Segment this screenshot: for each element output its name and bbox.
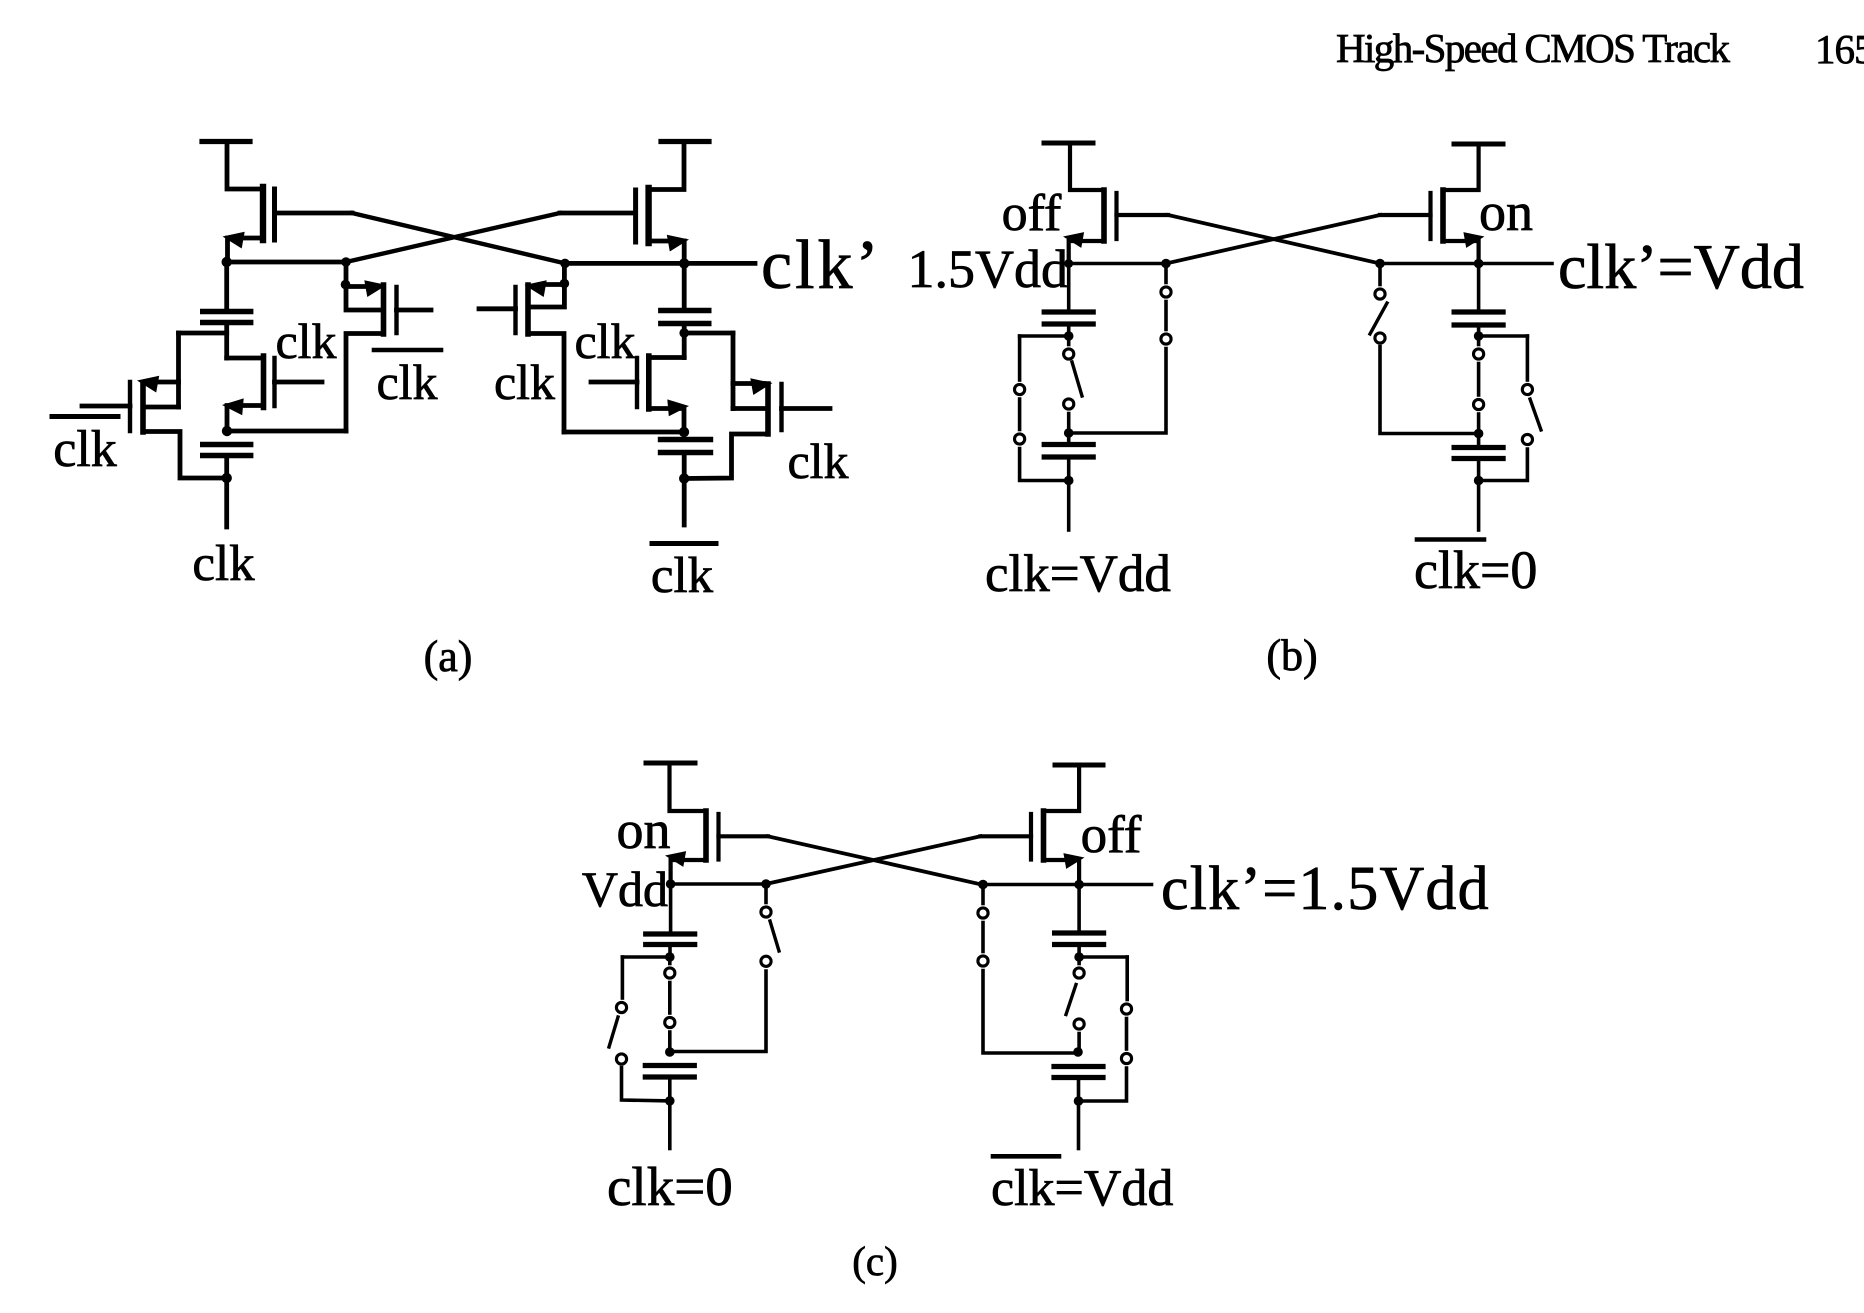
svg-text:on: on: [1479, 182, 1533, 242]
node D diag junction dot: [1375, 259, 1385, 269]
node C junction dot: [1161, 259, 1171, 269]
nmos M4 gate lead: [591, 380, 637, 385]
cross wire M2 gate to node A: [346, 213, 560, 262]
pmos P4 gate bar: [779, 384, 783, 430]
switch S4 wire upper: [1477, 336, 1481, 345]
svg-text:1.5Vdd: 1.5Vdd: [908, 239, 1069, 299]
pmos M7 source wire: [670, 763, 705, 811]
node D junction dot: [1474, 259, 1484, 269]
capacitor C3 bottom stem: [682, 324, 687, 358]
pmos P4 body tap wire: [733, 406, 768, 411]
pmos M2 drain wire: [649, 241, 685, 263]
node E junction dot: [666, 879, 676, 889]
switch S5 open blade: [1370, 303, 1387, 334]
svg-text:clk: clk: [192, 536, 255, 592]
open switch branch wire top (b-right): [1378, 264, 1382, 285]
switch S11 closed blade: [981, 923, 985, 952]
pmos M1 gate bar: [272, 189, 277, 240]
switch S10 wire lower: [1077, 1034, 1081, 1053]
pmos P3 gate lead: [479, 306, 516, 311]
pmos M8 source wire: [1046, 765, 1080, 811]
svg-text:(a): (a): [424, 632, 473, 681]
left rail upper segment: [176, 333, 181, 382]
switch S1 wire upper: [1067, 336, 1071, 345]
node F junction dot: [1074, 880, 1084, 890]
switch S10 open blade: [1066, 985, 1076, 1015]
Vdd rail bar right (a): [661, 139, 709, 144]
pmos P2 source wire: [346, 334, 384, 432]
node C wire: [1069, 262, 1166, 266]
node B diag junction dot: [560, 259, 570, 269]
pmos M5 drain wire: [1069, 241, 1104, 264]
pmos P1 gate bar: [128, 382, 132, 431]
bypass tee wire left (b): [1020, 334, 1069, 338]
switch S5 bottom circle: [1375, 333, 1385, 343]
svg-text:clk=Vdd: clk=Vdd: [991, 1160, 1173, 1217]
svg-text:clk’=1.5Vdd: clk’=1.5Vdd: [1161, 855, 1490, 923]
open switch branch wire bottom (c-left): [670, 971, 766, 1052]
pmos P4 drain arrow: [750, 378, 772, 395]
pmos M8 gate lead: [981, 834, 1032, 838]
node A diag junction dot: [341, 257, 351, 267]
capacitor C3 top stem: [682, 263, 687, 310]
pmos P2 channel bar: [381, 285, 387, 334]
tee wire to right rail: [684, 331, 733, 336]
nmos M3 channel bar: [261, 356, 267, 408]
switch S4 top circle: [1474, 349, 1484, 359]
capacitor C10 bottom stem: [668, 1077, 672, 1101]
capacitor C2 bottom stem: [224, 456, 229, 479]
capacitor C9 bottom stem: [668, 945, 672, 958]
junction dot below C10: [665, 1096, 675, 1106]
capacitor C7 plates: [1454, 309, 1503, 314]
capacitor C3 plates: [661, 308, 709, 313]
nmos M4 channel bar: [646, 356, 652, 409]
switch S7 top circle: [665, 968, 675, 978]
nmos M4 source arrow: [667, 399, 689, 416]
capacitor C5 bottom stem: [1067, 324, 1071, 336]
Vdd rail bar right (b): [1454, 142, 1503, 147]
switch S11 top circle: [978, 908, 988, 918]
junction dot below C5: [1064, 331, 1074, 341]
pmos M5 source wire: [1070, 143, 1102, 190]
open switch branch wire bottom (b-right): [1380, 347, 1479, 434]
nmos M3 source arrow: [222, 398, 244, 415]
switch S7 closed blade: [668, 983, 672, 1014]
switch S8 open blade: [770, 921, 779, 951]
clkbar input stub (b-right): [1477, 481, 1481, 531]
nmos M3 gate bar: [272, 358, 276, 406]
svg-text:(c): (c): [852, 1238, 898, 1284]
capacitor C12 bottom stem: [1077, 1078, 1081, 1102]
switch S11 bottom circle: [978, 956, 988, 966]
pmos M8 drain wire: [1044, 860, 1080, 885]
pmos P3 gate bar: [513, 287, 517, 333]
capacitor C10 plates: [645, 1063, 694, 1068]
svg-text:clk: clk: [376, 354, 437, 410]
bypass rail left lower (b): [1020, 449, 1069, 481]
label clkbar overline (P2 gate): [374, 348, 441, 353]
pmos M7 drain arrow: [665, 851, 686, 867]
bypass rail right lower (b): [1479, 449, 1528, 481]
node B junction dot: [679, 258, 689, 268]
cross wire M7 gate to right node: [768, 836, 982, 884]
pmos M2 gate bar: [633, 190, 638, 242]
pmos P3 channel bar: [525, 285, 531, 334]
junction dot below C12: [1074, 1096, 1084, 1106]
pmos P3 source wire: [528, 334, 564, 433]
left rail body segment: [176, 382, 181, 407]
pmos M7 channel bar: [703, 811, 709, 860]
switch S4 wire lower: [1477, 414, 1481, 434]
pmos M2 gate lead: [560, 211, 636, 216]
bypass rail right lower (c): [1079, 1068, 1127, 1101]
loop wire left: [227, 429, 346, 434]
node A to pmos P2 stub: [346, 262, 379, 310]
node D wire: [1380, 262, 1552, 266]
pmos M6 channel bar: [1440, 190, 1446, 241]
switch S7 bottom circle: [665, 1017, 675, 1027]
cross wire M8 gate to node E: [766, 836, 981, 884]
pmos P4 channel bar: [765, 384, 771, 434]
switch S2 top circle: [1161, 287, 1171, 297]
svg-text:clk’: clk’: [761, 227, 882, 304]
svg-text:clk: clk: [574, 313, 635, 369]
svg-text:clk: clk: [53, 421, 117, 478]
switch S9 top circle: [616, 1002, 626, 1012]
pmos M6 drain wire: [1443, 241, 1479, 264]
cross wire M5 gate to right node: [1168, 215, 1380, 264]
bypass rail right (c): [1125, 957, 1129, 1000]
junction dot mid left (b): [1064, 428, 1074, 438]
switch S1 wire lower: [1067, 414, 1071, 434]
capacitor C6 plates: [1044, 442, 1093, 447]
loop wire right: [564, 430, 684, 435]
junction dot below C9: [665, 952, 675, 962]
tee wire to left rail: [179, 331, 227, 336]
junction dot lower left: [222, 426, 232, 436]
junction dot mid right (b): [1474, 429, 1484, 439]
pmos P4 source wire: [684, 434, 768, 479]
switch S8 top circle: [761, 907, 771, 917]
open switch branch wire top (c-left): [764, 884, 768, 903]
capacitor C1 bottom stem: [224, 323, 229, 359]
capacitor C7 top stem: [1477, 264, 1481, 313]
pmos M1 drain arrow: [223, 232, 245, 249]
capacitor C9 top stem: [669, 884, 673, 934]
svg-text:off: off: [1081, 806, 1142, 864]
svg-text:High-Speed CMOS Track: High-Speed CMOS Track: [1336, 25, 1730, 71]
pmos M6 gate bar: [1428, 193, 1432, 239]
switch S1 top circle: [1064, 349, 1074, 359]
svg-text:clk’=Vdd: clk’=Vdd: [1558, 231, 1804, 302]
label clkbar overline input right: [652, 541, 716, 546]
Vdd rail bar left (b): [1044, 141, 1093, 146]
capacitor C11 plates: [1055, 930, 1104, 935]
pmos M8 drain arrow: [1063, 853, 1084, 869]
switch S8 bottom circle: [761, 956, 771, 966]
node C drain junction dot: [1064, 259, 1073, 268]
bypass rail left lower (c): [622, 1068, 670, 1101]
switch S3 bottom circle: [1015, 434, 1025, 444]
clk input stub (c-left): [668, 1101, 672, 1149]
junction dot mid left (c): [665, 1047, 675, 1057]
svg-text:(b): (b): [1266, 631, 1317, 680]
pmos P2 gate bar: [394, 287, 398, 333]
switch S3 top circle: [1015, 384, 1025, 394]
pmos M2 source wire: [650, 142, 684, 190]
switch S4 closed blade: [1477, 364, 1481, 396]
pmos P3 drain junction dot: [560, 279, 570, 289]
switch S12 closed blade: [1125, 1019, 1129, 1050]
switch S9 open blade: [609, 1017, 618, 1047]
nmos M3 gate lead: [275, 380, 323, 385]
pmos P2 drain wire: [346, 284, 372, 289]
junction dot below C8: [1474, 476, 1484, 486]
node E diag junction dot: [761, 879, 771, 889]
svg-text:clk: clk: [651, 548, 714, 604]
capacitor C8 plates: [1454, 445, 1503, 450]
pmos M5 channel bar: [1101, 190, 1107, 241]
pmos M7 drain wire: [671, 860, 706, 884]
capacitor C1 top stem: [224, 262, 229, 312]
capacitor C1 plates: [203, 309, 251, 314]
node A wire: [227, 260, 346, 265]
capacitor C12 plates: [1054, 1064, 1103, 1069]
pmos M5 gate lead: [1117, 213, 1169, 217]
switch S1 open blade: [1072, 362, 1082, 396]
junction dot lower right: [679, 427, 689, 437]
capacitor C9 plates: [646, 931, 695, 936]
junction dot below C6: [1064, 476, 1074, 486]
switch S7 wire upper: [668, 957, 672, 964]
closed switch branch wire bottom (c-right): [983, 971, 1078, 1054]
capacitor C2 plates: [203, 442, 251, 447]
nmos M4 gate bar: [635, 358, 639, 407]
switch S10 wire upper: [1077, 957, 1081, 964]
pmos M7 gate bar: [716, 814, 720, 860]
cross wire M1 gate to right node: [352, 213, 565, 263]
label clkbar overline (P1 gate): [52, 414, 118, 419]
pmos P3 drain arrow: [525, 280, 547, 297]
tee junction dot right: [679, 328, 689, 338]
Vdd rail bar left (c): [646, 761, 695, 766]
pmos M2 drain arrow: [667, 235, 689, 252]
bypass rail left (b): [1018, 336, 1022, 380]
pmos M1 channel bar: [260, 187, 266, 240]
pmos P2 gate lead: [397, 308, 432, 313]
svg-text:clk: clk: [494, 354, 555, 410]
bypass rail right (b): [1526, 336, 1530, 380]
pmos P1 source wire: [143, 432, 227, 479]
switch S10 top circle: [1074, 968, 1084, 978]
pmos M8 gate bar: [1029, 814, 1033, 860]
label clkbar overline (b): [1417, 537, 1484, 542]
switch S4 bottom circle: [1474, 399, 1484, 409]
capacitor C6 top stem: [1067, 433, 1071, 445]
junction dot mid right (c): [1073, 1047, 1083, 1057]
pmos P3 drain wire: [540, 282, 564, 287]
bypass tee wire right (b): [1479, 334, 1528, 338]
capacitor C5 plates: [1044, 309, 1093, 314]
switch S12 bottom circle: [1121, 1053, 1131, 1063]
switch S6 open blade: [1530, 399, 1541, 430]
pmos P1 body tap wire: [143, 405, 179, 410]
pmos P2 drain junction dot: [341, 280, 351, 290]
nmos M4 source wire: [649, 409, 684, 433]
pmos M8 channel bar: [1041, 811, 1047, 860]
clk input stub left: [224, 478, 229, 527]
node F diag junction dot: [978, 880, 988, 890]
switch S9 bottom circle: [616, 1054, 626, 1064]
pmos P1 drain arrow: [137, 376, 159, 393]
capacitor C6 bottom stem: [1067, 457, 1071, 481]
pmos M7 gate lead: [719, 834, 769, 838]
switch S7 wire lower: [668, 1032, 672, 1052]
right rail body segment: [731, 384, 736, 409]
svg-text:Vdd: Vdd: [582, 861, 668, 917]
junction dot below C2: [222, 473, 232, 483]
closed switch branch wire top (c-right): [981, 885, 985, 904]
nmos M3 source wire: [227, 406, 264, 432]
pmos P2 drain arrow: [364, 280, 386, 297]
pmos P4 gate lead: [782, 406, 831, 411]
pmos M1 drain wire: [228, 238, 264, 262]
capacitor C8 top stem: [1477, 434, 1481, 448]
capacitor C11 bottom stem: [1077, 945, 1081, 958]
svg-text:on: on: [617, 800, 671, 860]
node F wire: [983, 883, 1152, 887]
nmos M3 drain wire: [227, 356, 264, 361]
switch S3 closed blade: [1018, 399, 1022, 430]
clkbar input stub right: [682, 479, 687, 526]
switch S2 closed blade: [1164, 302, 1168, 330]
pmos P1 drain wire: [146, 380, 179, 385]
nmos M4 drain wire: [649, 355, 684, 360]
svg-text:165: 165: [1815, 26, 1864, 72]
clk input stub (b-left): [1067, 481, 1071, 531]
pmos P4 drain wire: [733, 381, 764, 386]
clkbar input stub (c-right): [1077, 1101, 1081, 1149]
pmos M5 gate bar: [1114, 193, 1118, 239]
bypass tee wire right (c): [1079, 955, 1127, 959]
node B wire: [565, 261, 755, 266]
switch S10 bottom circle: [1074, 1019, 1084, 1029]
Vdd rail bar left (a): [202, 139, 250, 144]
switch S6 bottom circle: [1522, 434, 1532, 444]
pmos M6 source wire: [1445, 144, 1479, 190]
switch S12 top circle: [1121, 1004, 1131, 1014]
svg-text:clk=Vdd: clk=Vdd: [985, 545, 1171, 603]
switch S2 bottom circle: [1161, 334, 1171, 344]
svg-text:off: off: [1002, 185, 1062, 242]
node A junction dot: [222, 257, 232, 267]
pmos M5 drain arrow: [1063, 232, 1084, 248]
bypass rail left (c): [621, 957, 625, 998]
capacitor C11 top stem: [1077, 885, 1081, 934]
switch S5 top circle: [1375, 289, 1385, 299]
svg-text:clk: clk: [275, 313, 336, 369]
junction dot below C4: [679, 473, 689, 483]
node E wire: [671, 882, 766, 886]
switch S1 bottom circle: [1064, 399, 1074, 409]
pmos M1 source wire: [227, 142, 261, 190]
pmos M2 channel bar: [645, 188, 651, 243]
pmos P1 gate lead: [82, 404, 130, 409]
capacitor C4 plates: [661, 437, 711, 442]
capacitor C8 bottom stem: [1477, 459, 1481, 481]
pmos M6 gate lead: [1380, 213, 1431, 217]
node B to pmos P3 stub: [531, 263, 564, 307]
junction dot below C7: [1474, 331, 1484, 341]
closed switch branch wire top (b-left): [1164, 264, 1168, 283]
svg-text:clk=0: clk=0: [1414, 540, 1537, 600]
switch S6 top circle: [1522, 384, 1532, 394]
junction dot below C11: [1074, 952, 1084, 962]
Vdd rail bar right (c): [1055, 763, 1103, 768]
bypass tee wire left (c): [622, 955, 669, 959]
label clkbar overline (c): [993, 1154, 1059, 1159]
capacitor C5 top stem: [1067, 264, 1071, 313]
pmos M6 drain arrow: [1463, 232, 1484, 248]
svg-text:clk=0: clk=0: [607, 1156, 733, 1217]
pmos M1 gate lead: [275, 211, 353, 216]
capacitor C7 bottom stem: [1477, 325, 1481, 336]
closed switch branch wire bottom (b-left): [1069, 349, 1166, 434]
pmos P1 channel bar: [140, 383, 146, 432]
svg-text:clk: clk: [787, 433, 848, 489]
cross wire M6 gate to node C: [1166, 215, 1380, 264]
right rail upper segment: [731, 333, 736, 382]
capacitor C4 bottom stem: [682, 453, 687, 479]
